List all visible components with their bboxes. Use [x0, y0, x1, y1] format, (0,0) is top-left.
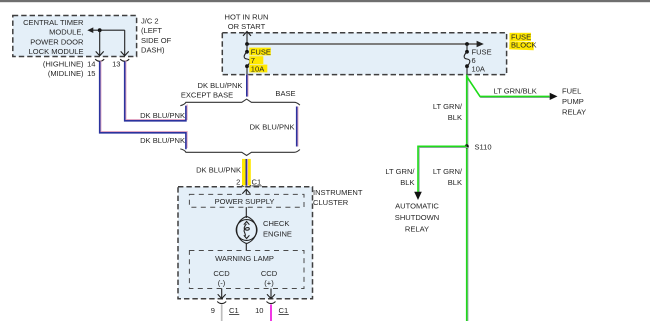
svg-text:LT GRN/: LT GRN/ [433, 102, 463, 111]
svg-text:LOCK MODULE: LOCK MODULE [29, 47, 84, 56]
warning lamp box [189, 251, 304, 289]
connector arc pin13 [120, 59, 129, 61]
power supply box [189, 194, 304, 207]
svg-text:HOT IN RUN: HOT IN RUN [225, 13, 269, 22]
arrowhead pin13 [121, 51, 129, 55]
svg-text:13: 13 [112, 59, 120, 68]
wire pin14 drop [99, 30, 101, 56]
svg-text:2: 2 [236, 177, 240, 186]
wire fuse7 to brace [247, 75, 249, 97]
svg-text:BLK: BLK [448, 178, 462, 187]
svg-text:C1: C1 [252, 177, 262, 186]
svg-text:DK BLU/PNK: DK BLU/PNK [140, 136, 185, 145]
node at fuse7 top [245, 42, 249, 46]
pin 9 exit arrow [221, 289, 223, 299]
ASD relay label [395, 202, 440, 234]
svg-text:10: 10 [255, 306, 263, 315]
svg-text:S110: S110 [475, 142, 492, 151]
label LT GRN/BLK above S110 [433, 102, 463, 122]
fuse 7 [246, 44, 248, 52]
svg-text:(+): (+) [264, 279, 274, 288]
svg-text:LT GRN/: LT GRN/ [385, 167, 415, 176]
central timer module label [23, 18, 84, 56]
fuse block box [222, 33, 506, 75]
svg-text:(HIGHLINE): (HIGHLINE) [43, 59, 84, 68]
wire pin13 DK BLU/PNK [126, 60, 187, 119]
feed arrow up [246, 32, 248, 45]
bus wire [247, 43, 479, 45]
svg-text:OR START: OR START [228, 22, 266, 31]
node at fuse6 top [465, 42, 469, 46]
wire BASE [297, 107, 299, 147]
svg-text:POWER DOOR: POWER DOOR [30, 37, 84, 46]
wire pin10 PNK [270, 305, 272, 321]
FUSE BLOCK highlight [510, 33, 532, 41]
svg-text:DK BLU/PNK: DK BLU/PNK [250, 122, 295, 131]
svg-text:10A: 10A [472, 64, 486, 73]
top page border [0, 0, 650, 2]
svg-text:BLK: BLK [448, 113, 462, 122]
svg-text:15: 15 [87, 69, 95, 78]
connector arc pin14 [95, 59, 104, 61]
svg-text:SIDE OF: SIDE OF [141, 36, 172, 45]
svg-text:BLOCK: BLOCK [511, 40, 537, 49]
svg-text:LT GRN/BLK: LT GRN/BLK [494, 86, 537, 95]
svg-text:CCD: CCD [213, 269, 230, 278]
check engine lamp [236, 220, 257, 241]
connector arc at C1 [242, 185, 251, 187]
fuse 6 [466, 44, 468, 52]
svg-text:BLK: BLK [400, 178, 414, 187]
top options brace [180, 99, 300, 106]
pin labels [43, 59, 121, 78]
svg-text:(-): (-) [218, 279, 226, 288]
svg-text:WARNING LAMP: WARNING LAMP [215, 254, 274, 263]
arrowhead left [87, 27, 93, 33]
central timer module box [13, 16, 137, 57]
node junction [98, 28, 102, 32]
wire fuse6 LT GRN/BLK main [467, 75, 469, 321]
lamp bottom lead [245, 243, 247, 251]
svg-text:9: 9 [211, 306, 215, 315]
svg-text:10A: 10A [251, 64, 265, 73]
J/C 2 label [141, 17, 172, 55]
svg-text:MODULE,: MODULE, [49, 28, 83, 37]
arrowhead pin14 [96, 51, 104, 55]
svg-text:FUEL: FUEL [562, 87, 581, 96]
merged wire highlight [242, 159, 251, 186]
wire branch to ASD relay [419, 147, 468, 193]
merged wire DK BLU/PNK [247, 159, 249, 186]
svg-text:EXCEPT BASE: EXCEPT BASE [181, 91, 233, 100]
svg-text:DK BLU/PNK: DK BLU/PNK [198, 81, 243, 90]
svg-text:CENTRAL TIMER: CENTRAL TIMER [23, 18, 84, 27]
wire pin14 DK BLU/PNK [101, 60, 187, 148]
svg-text:(LEFT: (LEFT [141, 26, 162, 35]
svg-text:AUTOMATIC: AUTOMATIC [395, 202, 439, 211]
bus arrowhead [477, 41, 484, 48]
wire inside CTM [90, 29, 125, 31]
svg-text:POWER SUPPLY: POWER SUPPLY [215, 197, 275, 206]
ASD arrowhead [414, 192, 422, 200]
label LT GRN/BLK asd branch [385, 167, 415, 187]
pin 10 exit arrow [270, 289, 272, 299]
svg-text:DASH): DASH) [141, 46, 165, 55]
svg-text:INSTRUMENT: INSTRUMENT [313, 188, 363, 197]
svg-text:SHUTDOWN: SHUTDOWN [395, 213, 439, 222]
wire pin9 WHT [221, 305, 223, 321]
svg-text:ENGINE: ENGINE [263, 229, 292, 238]
fuse 7 highlight [249, 48, 270, 56]
entry arrow into cluster [245, 190, 247, 195]
fuel pump arrowhead [550, 93, 558, 100]
wire pin13 drop [124, 30, 126, 56]
label LT GRN/BLK main below S110 [433, 167, 463, 187]
svg-text:14: 14 [87, 59, 95, 68]
instrument cluster box [178, 187, 313, 299]
svg-text:C1: C1 [279, 306, 289, 315]
svg-text:RELAY: RELAY [405, 225, 429, 234]
bottom options brace [180, 149, 300, 156]
svg-text:RELAY: RELAY [562, 107, 586, 116]
wire branch to fuel pump relay [467, 78, 550, 98]
svg-text:BASE: BASE [275, 89, 295, 98]
svg-text:PUMP: PUMP [562, 97, 584, 106]
svg-text:CLUSTER: CLUSTER [313, 198, 349, 207]
svg-text:C1: C1 [229, 306, 239, 315]
svg-text:CHECK: CHECK [263, 219, 289, 228]
svg-text:CCD: CCD [261, 269, 278, 278]
svg-text:(MIDLINE): (MIDLINE) [48, 69, 84, 78]
splice S110 [465, 144, 469, 148]
svg-text:DK BLU/PNK: DK BLU/PNK [140, 111, 185, 120]
svg-text:LT GRN/: LT GRN/ [433, 167, 463, 176]
lamp top lead [245, 207, 247, 218]
hot in run label [225, 13, 269, 31]
svg-text:DK BLU/PNK: DK BLU/PNK [196, 165, 241, 174]
svg-text:J/C 2: J/C 2 [141, 17, 159, 26]
